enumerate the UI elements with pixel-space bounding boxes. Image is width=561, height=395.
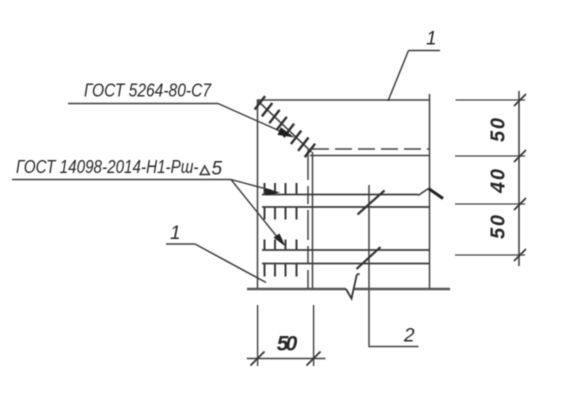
extension line y100 (456, 99, 526, 101)
svg-text:ГОСТ 5264-80-С7: ГОСТ 5264-80-С7 (84, 81, 212, 101)
svg-text:5: 5 (212, 159, 223, 180)
label1 leader (218, 104, 290, 136)
extension line y156 (455, 155, 525, 157)
top chord line of column head (257, 99, 430, 101)
svg-text:50: 50 (277, 333, 298, 356)
dimension line (247, 358, 326, 360)
label1 arrowhead (278, 127, 295, 137)
label2 arrowhead A (265, 188, 281, 196)
svg-text:1: 1 (426, 29, 437, 50)
right dimension chain (455, 91, 525, 266)
rebar B2 bottom line (262, 263, 430, 265)
svg-text:50: 50 (488, 215, 510, 239)
rebar B1 top line (262, 194, 418, 196)
bottom dim ticks (251, 352, 321, 366)
hidden dashed vertical (307, 150, 309, 288)
transverse bar ticks, bar2 bottom (264, 264, 266, 277)
hidden dashed line horizontal (312, 148, 430, 150)
extension line right (313, 305, 315, 366)
label2 arrowhead B (274, 234, 286, 247)
rebar B1 bottom line (262, 206, 430, 208)
right vertical edge of column (429, 94, 431, 289)
weld bevel diagonal (257, 100, 312, 152)
svg-text:50: 50 (488, 118, 510, 142)
triangle glyph (200, 166, 209, 175)
bottom dimension 50 (247, 305, 326, 366)
pos1 bottom underline (166, 243, 195, 245)
rebar B2 top line (262, 249, 430, 251)
label2 leader B (231, 180, 278, 239)
transverse bar ticks, bar1 bottom (264, 207, 266, 220)
transverse bar ticks, bar1 top (265, 183, 297, 277)
solid inner vertical (312, 152, 314, 288)
break squiggle (346, 274, 360, 299)
transverse bar ticks, bar2 top (264, 240, 266, 251)
pos1 top leader (388, 51, 409, 102)
dimension vertical line (518, 91, 520, 266)
svg-text:ГОСТ 14098-2014-Н1-Рш-: ГОСТ 14098-2014-Н1-Рш- (16, 157, 199, 177)
svg-text:2: 2 (403, 326, 415, 347)
extension line y255 (455, 254, 525, 256)
left vertical edge of column (257, 100, 259, 289)
extension line left (257, 305, 259, 366)
zigzag end of bar1 (418, 189, 429, 196)
pos1 bottom leader (195, 244, 266, 283)
dim ticks right (514, 94, 526, 261)
solid ledge line under dashed (310, 155, 430, 157)
label2 leader A (231, 180, 272, 191)
bar break slash 1 (358, 191, 385, 215)
label1 underline (68, 103, 218, 105)
label2 underline (12, 179, 231, 181)
base line with break (247, 288, 450, 291)
weld seam hatch ticks (255, 96, 315, 157)
svg-text:1: 1 (170, 223, 181, 244)
svg-text:40: 40 (488, 169, 510, 194)
bar break slash 2 (357, 247, 381, 269)
leader line 2 vertical (369, 185, 419, 347)
pos1 top underline (409, 50, 441, 52)
extension line y204 (455, 203, 525, 205)
